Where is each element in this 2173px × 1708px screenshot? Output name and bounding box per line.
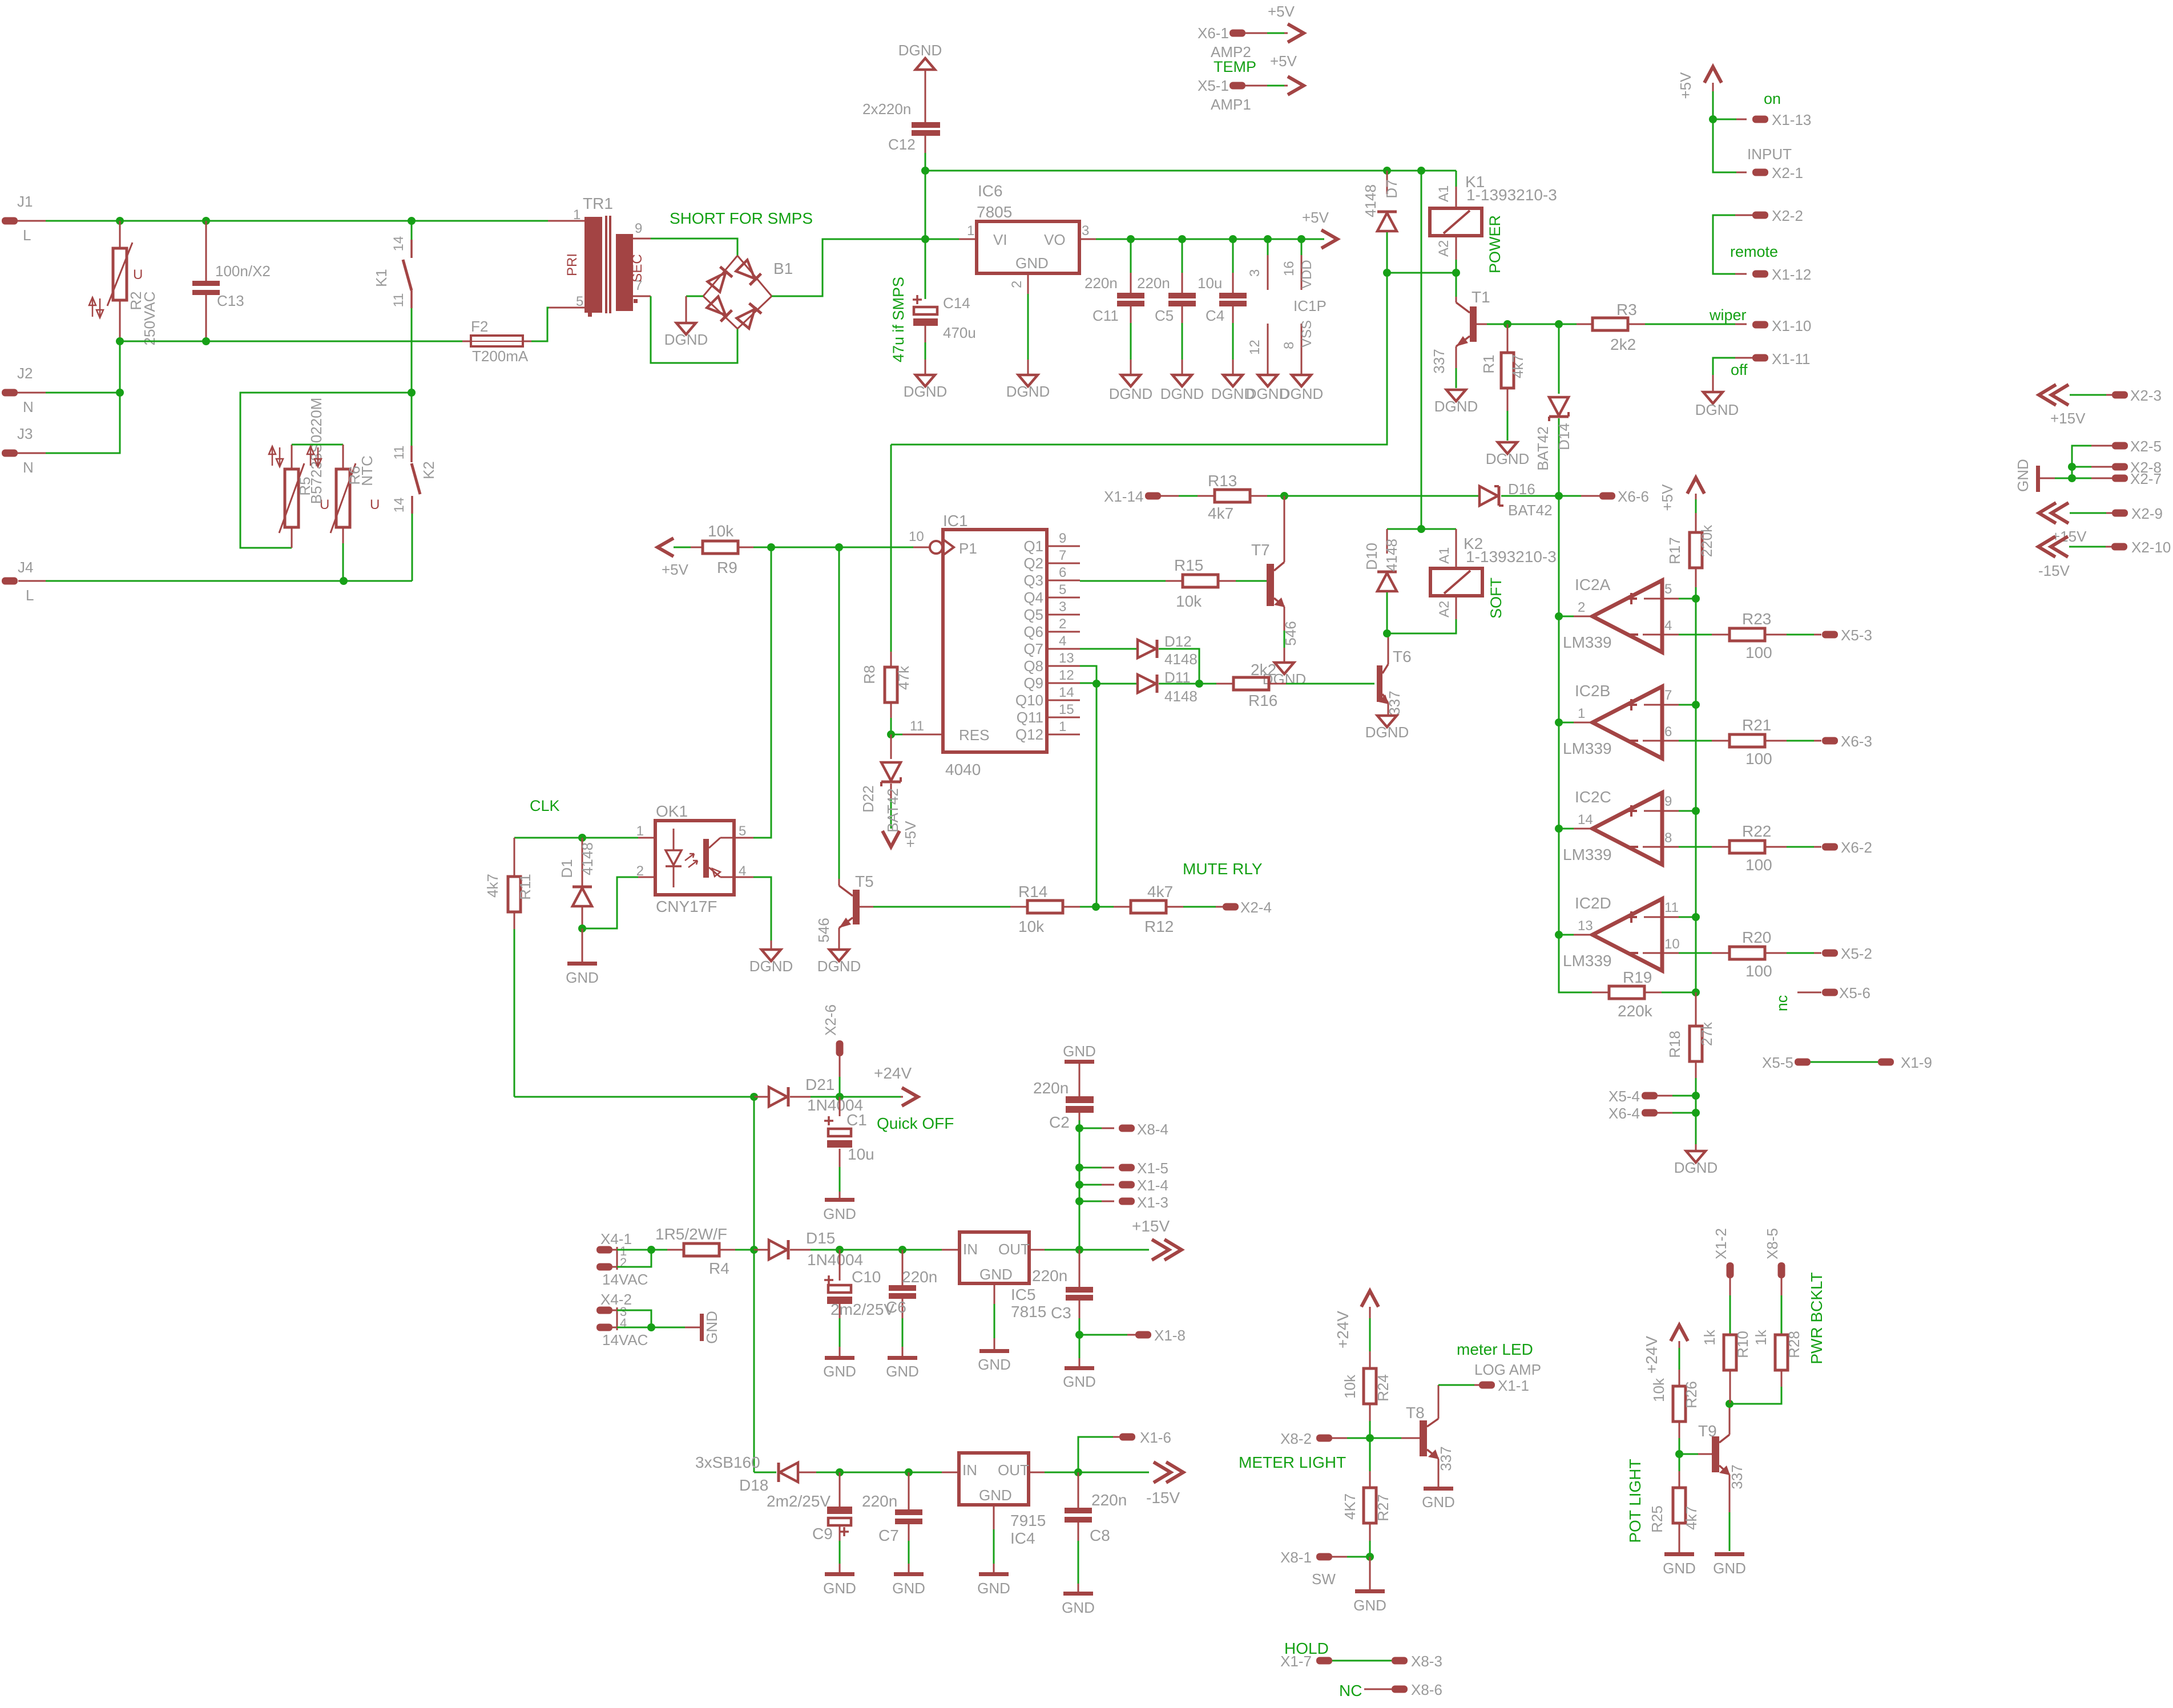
node relay drive junction bbox=[1383, 269, 1391, 277]
svg-text:D7: D7 bbox=[1383, 179, 1400, 198]
svg-text:7: 7 bbox=[1664, 688, 1672, 703]
svg-text:Q1: Q1 bbox=[1023, 538, 1043, 555]
svg-text:X2-1: X2-1 bbox=[1772, 164, 1803, 181]
counter IC1 4040 bbox=[943, 530, 1047, 752]
svg-text:LM339: LM339 bbox=[1563, 846, 1612, 863]
svg-text:9: 9 bbox=[1664, 794, 1672, 809]
svg-text:IC2A: IC2A bbox=[1575, 576, 1611, 593]
svg-text:4148: 4148 bbox=[1164, 651, 1198, 668]
resistor R8 bbox=[890, 445, 892, 652]
node D7 junction top bbox=[1383, 167, 1391, 175]
svg-text:OUT: OUT bbox=[998, 1241, 1030, 1258]
svg-text:10k: 10k bbox=[1176, 592, 1202, 610]
svg-text:DGND: DGND bbox=[1434, 398, 1478, 415]
svg-text:4040: 4040 bbox=[945, 761, 981, 778]
svg-text:C12: C12 bbox=[888, 136, 916, 153]
resistor R14 bbox=[1010, 906, 1027, 908]
wire OK1 pin5 to P1 bbox=[734, 837, 753, 839]
ground GND C7 bbox=[894, 1572, 924, 1576]
svg-text:GND: GND bbox=[1015, 255, 1049, 272]
ground DGND T1 bbox=[1446, 390, 1466, 401]
svg-text:220n: 220n bbox=[1033, 1079, 1069, 1097]
svg-text:4k7: 4k7 bbox=[484, 874, 501, 898]
wire +24V unreg vertical bbox=[753, 1097, 755, 1472]
ground GND C10 bbox=[825, 1356, 854, 1360]
wire bridge plus to IC6 input bbox=[772, 239, 925, 296]
capacitor C8 bbox=[1078, 1472, 1079, 1508]
svg-text:DGND: DGND bbox=[1109, 385, 1153, 402]
svg-text:546: 546 bbox=[815, 918, 832, 942]
svg-text:LM339: LM339 bbox=[1563, 740, 1612, 757]
varistor R6 NTC bbox=[342, 445, 344, 469]
resistor R3 bbox=[1577, 324, 1593, 325]
wire K2 coil top bbox=[1421, 171, 1422, 529]
pin X5-4 bbox=[1642, 1092, 1658, 1100]
pin X1-1 LOG AMP bbox=[1479, 1382, 1495, 1389]
svg-text:AMP1: AMP1 bbox=[1211, 96, 1251, 113]
svg-text:14VAC: 14VAC bbox=[602, 1271, 648, 1288]
svg-text:1k: 1k bbox=[1701, 1329, 1718, 1345]
svg-text:5: 5 bbox=[739, 823, 746, 839]
svg-text:GND: GND bbox=[1353, 1597, 1386, 1614]
pin X1-10 wiper bbox=[1752, 321, 1768, 329]
svg-text:T8: T8 bbox=[1406, 1404, 1425, 1422]
wire OK1 pin4 to DGND bbox=[734, 877, 753, 878]
wire +5V rail bbox=[1079, 239, 1096, 240]
ground DGND T7 bbox=[1275, 663, 1294, 674]
svg-text:R22: R22 bbox=[1742, 822, 1771, 840]
resistor R27 bbox=[1369, 1438, 1371, 1471]
resistor R24 bbox=[1369, 1351, 1371, 1368]
node K2 coil junction bbox=[1417, 525, 1425, 533]
node Q8/Q9 junction bbox=[1092, 680, 1100, 688]
diode D14 BAT42 bbox=[1558, 324, 1560, 394]
diode D21 1N4004 bbox=[754, 1096, 769, 1098]
capacitor C9 2m2 bbox=[839, 1472, 841, 1507]
svg-text:11: 11 bbox=[391, 293, 406, 308]
svg-text:C10: C10 bbox=[852, 1268, 881, 1286]
svg-text:IN: IN bbox=[963, 1241, 978, 1258]
svg-text:CNY17F: CNY17F bbox=[656, 898, 717, 915]
resistor R17 bbox=[1695, 513, 1697, 532]
svg-text:+24V: +24V bbox=[1334, 1311, 1352, 1348]
svg-text:11: 11 bbox=[1664, 900, 1679, 915]
svg-text:3: 3 bbox=[1059, 599, 1066, 615]
svg-text:OUT: OUT bbox=[998, 1461, 1029, 1479]
wire L mains from J1 to TR1 pin 1 bbox=[18, 220, 565, 222]
svg-text:1: 1 bbox=[636, 823, 644, 839]
pin P1 clock input bbox=[930, 541, 942, 554]
svg-text:GND: GND bbox=[823, 1205, 856, 1222]
svg-text:SW: SW bbox=[1312, 1570, 1336, 1588]
ground GND IC5 bbox=[979, 1349, 1009, 1353]
svg-text:T9: T9 bbox=[1698, 1422, 1717, 1440]
svg-text:1N4004: 1N4004 bbox=[807, 1251, 863, 1269]
svg-text:R1: R1 bbox=[1480, 354, 1497, 373]
svg-text:3: 3 bbox=[1247, 269, 1263, 277]
svg-text:C4: C4 bbox=[1206, 307, 1224, 324]
svg-text:B1: B1 bbox=[773, 260, 793, 277]
svg-text:X6-3: X6-3 bbox=[1841, 733, 1872, 750]
svg-text:R16: R16 bbox=[1248, 692, 1277, 709]
svg-text:6: 6 bbox=[1059, 565, 1066, 580]
capacitor C7 bbox=[908, 1472, 910, 1509]
svg-text:R23: R23 bbox=[1742, 610, 1771, 628]
pin X8-1 SW bbox=[1316, 1553, 1332, 1561]
varistor R5 NTC bbox=[291, 527, 293, 548]
resistor R15 bbox=[1080, 580, 1166, 582]
svg-text:X1-14: X1-14 bbox=[1104, 488, 1143, 505]
resistor R12 bbox=[1114, 906, 1131, 908]
ground GND X4-2 bbox=[700, 1314, 704, 1341]
svg-text:1: 1 bbox=[573, 207, 580, 223]
optocoupler OK1 CNY17F bbox=[655, 821, 734, 895]
svg-text:7815: 7815 bbox=[1011, 1303, 1046, 1321]
wire T5 base to R14 bbox=[860, 906, 873, 908]
resistor R26 bbox=[1679, 1370, 1680, 1386]
svg-text:IC2C: IC2C bbox=[1575, 788, 1611, 806]
wire IC5 GND bbox=[994, 1283, 995, 1304]
pin X8-2 bbox=[1316, 1435, 1332, 1442]
pin X2-10 -15V bbox=[2038, 536, 2055, 557]
svg-text:8: 8 bbox=[1281, 342, 1297, 349]
pin Q3 (6) bbox=[1047, 580, 1080, 582]
resistor R23 bbox=[1712, 634, 1729, 636]
svg-text:4k7: 4k7 bbox=[1509, 354, 1526, 378]
wire IC2C minus pin bbox=[1643, 846, 1679, 848]
svg-text:X8-5: X8-5 bbox=[1764, 1228, 1781, 1259]
svg-text:14: 14 bbox=[1059, 685, 1074, 700]
svg-text:14VAC: 14VAC bbox=[602, 1331, 648, 1348]
supply +5V down arrow bbox=[882, 831, 900, 847]
svg-text:D15: D15 bbox=[806, 1229, 835, 1247]
svg-text:13: 13 bbox=[1059, 651, 1074, 666]
supply +5V arrow on bbox=[1704, 67, 1722, 83]
svg-text:1: 1 bbox=[1059, 719, 1066, 734]
diode D12 bbox=[1138, 640, 1157, 658]
svg-text:R8: R8 bbox=[861, 665, 878, 684]
svg-text:GND: GND bbox=[886, 1363, 919, 1380]
ground DGND off bbox=[1703, 392, 1723, 403]
pin X1-4 bbox=[1079, 1184, 1102, 1186]
pin Q2 (7) bbox=[1047, 563, 1080, 564]
svg-text:4k7: 4k7 bbox=[1683, 1506, 1700, 1530]
svg-text:X1-7: X1-7 bbox=[1280, 1653, 1312, 1670]
pin Q12 (1) bbox=[1047, 734, 1080, 736]
svg-text:11: 11 bbox=[392, 446, 407, 460]
svg-text:IC5: IC5 bbox=[1011, 1286, 1036, 1303]
svg-text:4148: 4148 bbox=[579, 842, 596, 875]
svg-text:X5-3: X5-3 bbox=[1841, 627, 1872, 644]
wire bridge minus to DGND bbox=[686, 296, 703, 297]
svg-text:D10: D10 bbox=[1363, 543, 1380, 570]
svg-text:X6-1: X6-1 bbox=[1198, 25, 1229, 42]
wire N bus horizontal bbox=[120, 341, 471, 342]
svg-text:NC: NC bbox=[1339, 1682, 1362, 1699]
svg-text:100: 100 bbox=[1745, 856, 1772, 874]
resistor R10 bbox=[1727, 1262, 1734, 1278]
svg-text:X2-7: X2-7 bbox=[2130, 470, 2162, 487]
connector X4-2 14VAC GND bbox=[596, 1307, 612, 1314]
connector X4-1 14VAC bbox=[596, 1246, 612, 1254]
svg-text:R17: R17 bbox=[1666, 537, 1683, 564]
svg-text:X1-2: X1-2 bbox=[1712, 1228, 1729, 1259]
wire NTC bypass loop bbox=[240, 393, 412, 548]
ground DGND OK1 bbox=[761, 950, 781, 961]
ground GND X2 cluster bbox=[2036, 466, 2040, 492]
svg-text:BAT42: BAT42 bbox=[1508, 502, 1553, 519]
ground DGND IC2P bbox=[1258, 375, 1277, 386]
svg-text:GND: GND bbox=[979, 1487, 1012, 1504]
ground DGND T6 bbox=[1377, 716, 1397, 727]
svg-text:PWR BCKLT: PWR BCKLT bbox=[1808, 1272, 1825, 1364]
pin RES 11 bbox=[902, 734, 943, 736]
svg-text:220k: 220k bbox=[1618, 1002, 1653, 1020]
svg-text:-15V: -15V bbox=[1146, 1489, 1180, 1507]
pin Q10 (14) bbox=[1047, 700, 1080, 701]
wire IC4 GND bbox=[993, 1505, 995, 1529]
transistor T7 bbox=[1284, 496, 1285, 545]
capacitor C11 bbox=[1130, 239, 1132, 273]
svg-text:OK1: OK1 bbox=[656, 802, 688, 820]
svg-text:10u: 10u bbox=[1198, 274, 1222, 292]
svg-text:14: 14 bbox=[1578, 812, 1593, 827]
resistor R19 bbox=[1592, 992, 1609, 994]
svg-text:X2-2: X2-2 bbox=[1772, 207, 1803, 224]
supply +24V arrow meter bbox=[1361, 1291, 1378, 1307]
svg-text:11: 11 bbox=[910, 718, 924, 734]
svg-text:7805: 7805 bbox=[977, 203, 1012, 221]
wire IC6 GND pin to DGND bbox=[1027, 273, 1029, 294]
svg-text:Q11: Q11 bbox=[1017, 709, 1043, 726]
pin Q1 (9) bbox=[1047, 546, 1080, 547]
svg-text:meter LED: meter LED bbox=[1457, 1340, 1533, 1358]
ground DGND C5 bbox=[1172, 375, 1192, 386]
svg-text:6: 6 bbox=[1664, 724, 1672, 740]
svg-text:D16: D16 bbox=[1508, 480, 1535, 498]
svg-text:GND: GND bbox=[1063, 1043, 1096, 1060]
transistor T9 bbox=[1679, 1453, 1698, 1455]
svg-text:+24V: +24V bbox=[1643, 1336, 1660, 1374]
svg-text:D12: D12 bbox=[1164, 633, 1192, 650]
ground DGND C14 bbox=[916, 375, 935, 386]
pin X2-9 +15V bbox=[2039, 503, 2056, 523]
capacitor C4 bbox=[1232, 239, 1234, 273]
wire +unreg rail to D7 bbox=[925, 170, 1456, 172]
svg-text:GND: GND bbox=[1713, 1560, 1746, 1577]
fuse F2 bbox=[462, 341, 471, 342]
svg-text:13: 13 bbox=[1578, 918, 1593, 934]
ground GND IC4 bbox=[979, 1572, 1009, 1576]
svg-text:IC2D: IC2D bbox=[1575, 894, 1611, 912]
ground DGND R1 bbox=[1498, 442, 1517, 454]
svg-text:GND: GND bbox=[1663, 1560, 1696, 1577]
svg-text:X1-11: X1-11 bbox=[1772, 350, 1810, 368]
svg-text:C2: C2 bbox=[1049, 1113, 1070, 1131]
svg-text:TR1: TR1 bbox=[583, 195, 613, 212]
svg-text:X4-1: X4-1 bbox=[600, 1230, 632, 1247]
svg-text:DGND: DGND bbox=[898, 42, 942, 59]
svg-text:R4: R4 bbox=[709, 1259, 729, 1277]
node K1-K2 junction bbox=[408, 389, 416, 397]
svg-text:R9: R9 bbox=[717, 559, 737, 576]
svg-text:Q2: Q2 bbox=[1023, 555, 1043, 572]
pin Q6 (2) bbox=[1047, 631, 1080, 633]
svg-text:R18: R18 bbox=[1666, 1031, 1683, 1058]
svg-text:N: N bbox=[23, 459, 34, 476]
svg-text:DGND: DGND bbox=[1674, 1159, 1718, 1176]
svg-text:14: 14 bbox=[391, 236, 406, 252]
svg-text:337: 337 bbox=[1386, 691, 1403, 715]
wire IC2B minus pin bbox=[1643, 740, 1679, 742]
svg-text:X1-9: X1-9 bbox=[1901, 1054, 1932, 1071]
switch K2 contact bbox=[411, 393, 413, 446]
wire IC2D plus pin bbox=[1644, 916, 1679, 918]
svg-text:Quick OFF: Quick OFF bbox=[877, 1115, 954, 1132]
wire IC2A plus pin bbox=[1644, 598, 1679, 600]
svg-text:+5V: +5V bbox=[1677, 72, 1694, 99]
wire Q9 bbox=[1080, 683, 1096, 684]
op-amp IC2A LM339 bbox=[1593, 580, 1662, 652]
svg-text:K1: K1 bbox=[373, 269, 390, 287]
ground GND T9 bbox=[1715, 1552, 1744, 1556]
ground GND C8 bbox=[1063, 1592, 1093, 1596]
svg-text:X5-5: X5-5 bbox=[1762, 1054, 1793, 1071]
svg-text:X1-1: X1-1 bbox=[1498, 1377, 1529, 1394]
wire IC2D input bbox=[1559, 934, 1574, 936]
svg-text:T200mA: T200mA bbox=[472, 348, 529, 365]
svg-text:SHORT FOR SMPS: SHORT FOR SMPS bbox=[670, 209, 813, 227]
svg-text:15: 15 bbox=[1059, 702, 1074, 717]
svg-text:1R5/2W/F: 1R5/2W/F bbox=[655, 1225, 727, 1243]
svg-text:R10: R10 bbox=[1734, 1331, 1751, 1358]
svg-text:J3: J3 bbox=[17, 425, 33, 442]
svg-text:VI: VI bbox=[993, 231, 1007, 248]
svg-text:+5V: +5V bbox=[662, 561, 689, 578]
svg-text:R21: R21 bbox=[1742, 716, 1771, 734]
svg-text:5: 5 bbox=[1664, 582, 1672, 597]
svg-text:X5-1: X5-1 bbox=[1198, 77, 1229, 94]
wire IC2C input bbox=[1559, 828, 1574, 830]
pin X1-8 bbox=[1079, 1334, 1127, 1336]
connector J3 bbox=[2, 450, 18, 457]
ground DGND bridge bbox=[676, 323, 696, 334]
capacitor C5 bbox=[1182, 239, 1183, 273]
resistor R11 bbox=[514, 838, 515, 877]
pin X2-5 X2-8 X2-7 GND bbox=[2112, 442, 2128, 450]
svg-text:10: 10 bbox=[1664, 936, 1680, 952]
svg-text:X1-5: X1-5 bbox=[1137, 1160, 1168, 1177]
svg-text:GND: GND bbox=[823, 1580, 856, 1597]
svg-text:J4: J4 bbox=[18, 559, 33, 576]
svg-text:1: 1 bbox=[1578, 706, 1585, 721]
svg-text:2k2: 2k2 bbox=[1251, 661, 1276, 679]
svg-text:X5-4: X5-4 bbox=[1608, 1088, 1640, 1105]
resistor R25 bbox=[1679, 1454, 1680, 1471]
wire Q8 down bbox=[1080, 666, 1096, 684]
svg-text:Q8: Q8 bbox=[1023, 657, 1043, 675]
svg-text:X5-2: X5-2 bbox=[1841, 945, 1872, 962]
svg-text:10k: 10k bbox=[1650, 1378, 1667, 1402]
svg-text:337: 337 bbox=[1728, 1464, 1745, 1489]
wire F2 to TR1 pin 5 bbox=[531, 308, 549, 341]
svg-text:Q9: Q9 bbox=[1023, 675, 1043, 692]
ground GND C6 bbox=[888, 1356, 917, 1360]
svg-text:VDD: VDD bbox=[1299, 260, 1315, 289]
svg-text:R14: R14 bbox=[1018, 883, 1047, 901]
svg-text:Q4: Q4 bbox=[1023, 589, 1043, 606]
svg-text:GND: GND bbox=[978, 1356, 1011, 1373]
pin X2-4 mute bbox=[1223, 903, 1239, 911]
svg-text:IN: IN bbox=[962, 1461, 977, 1479]
svg-text:GND: GND bbox=[703, 1311, 720, 1344]
svg-text:X8-4: X8-4 bbox=[1137, 1121, 1168, 1138]
svg-text:X8-3: X8-3 bbox=[1411, 1653, 1442, 1670]
wire N from J2 J3 bbox=[46, 341, 120, 453]
svg-text:on: on bbox=[1764, 90, 1781, 107]
svg-text:X1-10: X1-10 bbox=[1772, 317, 1811, 334]
svg-text:GND: GND bbox=[1063, 1373, 1096, 1390]
svg-text:N: N bbox=[23, 398, 34, 415]
ground DGND C4 bbox=[1223, 375, 1243, 386]
svg-text:2m2/25V: 2m2/25V bbox=[831, 1301, 894, 1318]
svg-text:X8-1: X8-1 bbox=[1280, 1549, 1312, 1566]
wire mute net down bbox=[1096, 684, 1098, 907]
svg-text:DGND: DGND bbox=[1280, 385, 1324, 402]
svg-text:47u if SMPS: 47u if SMPS bbox=[890, 277, 907, 362]
svg-text:R26: R26 bbox=[1683, 1381, 1700, 1408]
svg-text:METER LIGHT: METER LIGHT bbox=[1239, 1453, 1346, 1471]
svg-text:D22: D22 bbox=[860, 785, 877, 813]
svg-text:-15V: -15V bbox=[2038, 562, 2070, 579]
svg-text:J2: J2 bbox=[17, 365, 33, 382]
svg-text:R19: R19 bbox=[1623, 968, 1652, 986]
svg-text:Q5: Q5 bbox=[1023, 606, 1043, 623]
svg-text:14: 14 bbox=[392, 498, 407, 513]
svg-text:8: 8 bbox=[1664, 830, 1672, 846]
svg-text:12: 12 bbox=[1247, 340, 1263, 355]
svg-text:T1: T1 bbox=[1471, 288, 1490, 306]
transistor T1 bbox=[1456, 273, 1457, 297]
svg-text:CLK: CLK bbox=[530, 797, 560, 814]
wire R13 to D16 bbox=[1267, 495, 1479, 497]
resistor R20 bbox=[1712, 952, 1729, 954]
svg-text:9: 9 bbox=[1059, 531, 1066, 546]
resistor R16 bbox=[1216, 683, 1233, 685]
transformer TR1 bbox=[565, 220, 584, 222]
svg-text:337: 337 bbox=[1437, 1446, 1454, 1471]
diode D16 BAT42 bbox=[1479, 486, 1503, 506]
svg-text:C9: C9 bbox=[812, 1525, 833, 1543]
capacitor C3 bbox=[1079, 1250, 1081, 1287]
svg-text:MUTE RLY: MUTE RLY bbox=[1183, 860, 1263, 878]
svg-text:4148: 4148 bbox=[1383, 539, 1400, 572]
svg-text:X8-6: X8-6 bbox=[1411, 1681, 1442, 1698]
pin X2-2 remote bbox=[1752, 212, 1768, 219]
svg-text:27k: 27k bbox=[1698, 1021, 1715, 1046]
svg-text:470u: 470u bbox=[943, 324, 976, 341]
varistor R2 bbox=[119, 221, 121, 248]
svg-text:VSS: VSS bbox=[1299, 320, 1315, 348]
svg-text:R12: R12 bbox=[1144, 918, 1174, 935]
wire IC2C plus pin bbox=[1644, 810, 1679, 812]
wire IC2B plus pin bbox=[1644, 704, 1679, 706]
svg-text:Q10: Q10 bbox=[1015, 692, 1043, 709]
svg-text:GND: GND bbox=[566, 969, 599, 986]
svg-text:A2: A2 bbox=[1436, 240, 1452, 257]
svg-text:Q3: Q3 bbox=[1023, 572, 1043, 589]
svg-text:X2-6: X2-6 bbox=[822, 1004, 839, 1036]
